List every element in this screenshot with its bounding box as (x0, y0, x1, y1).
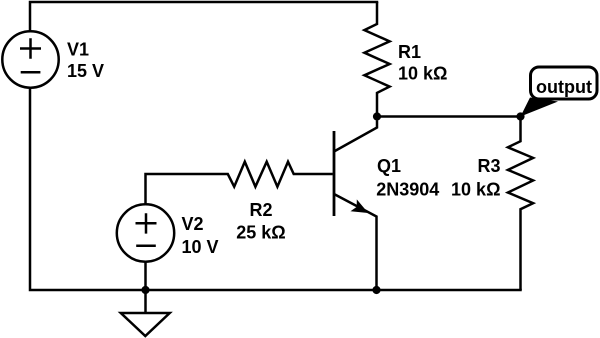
wire collector node to output node (377, 115, 521, 118)
transistor Q1 (334, 121, 377, 291)
label R3 value (451, 156, 500, 200)
svg-text:R3: R3 (477, 156, 500, 176)
svg-text:R1: R1 (398, 42, 421, 62)
node V2 ground junction (141, 286, 149, 294)
svg-text:V2: V2 (182, 214, 204, 234)
node output junction (516, 112, 524, 120)
wire left rail lower and bottom rail (30, 88, 522, 290)
svg-text:25 kΩ: 25 kΩ (236, 223, 285, 243)
resistor R1 (364, 2, 389, 117)
svg-text:15 V: 15 V (67, 61, 104, 81)
svg-text:10 kΩ: 10 kΩ (451, 180, 500, 200)
voltage source V2 (117, 204, 174, 261)
node emitter junction (372, 286, 380, 294)
wire V2 bottom lead (144, 262, 147, 290)
svg-text:V1: V1 (67, 40, 89, 60)
svg-text:Q1: Q1 (377, 156, 401, 176)
svg-text:output: output (536, 77, 592, 97)
node collector junction (373, 112, 381, 120)
label R1 value (398, 42, 447, 83)
svg-text:10 kΩ: 10 kΩ (398, 64, 447, 84)
label V2 value (182, 214, 219, 257)
voltage source V1 (2, 31, 58, 87)
svg-text:10 V: 10 V (182, 237, 219, 257)
svg-text:R2: R2 (249, 200, 272, 220)
output flag (521, 67, 598, 117)
svg-text:2N3904: 2N3904 (376, 180, 439, 200)
resistor R3 (508, 117, 533, 291)
label Q1 value (376, 156, 439, 200)
ground (121, 290, 170, 336)
wire top rail from V1 to R1 (30, 2, 378, 31)
label V1 value (67, 40, 104, 82)
resistor R2 with base wire from V2 top lead (146, 162, 333, 205)
label R2 value (236, 200, 285, 243)
